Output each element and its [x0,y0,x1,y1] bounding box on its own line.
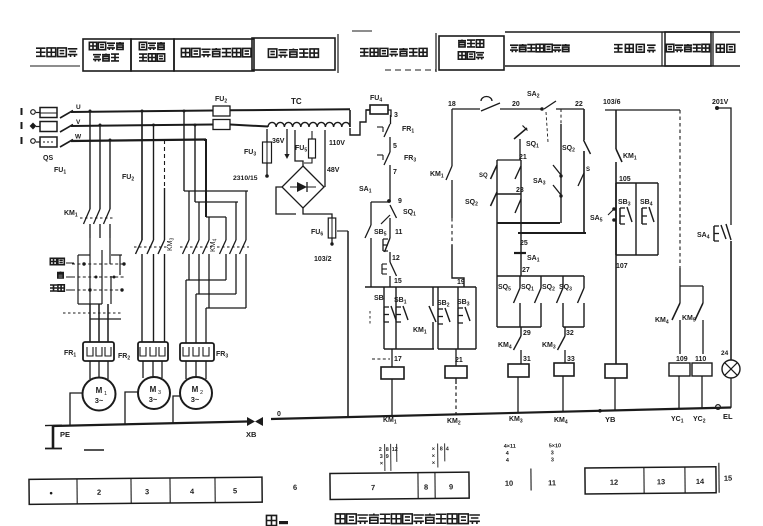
contact on wire 22 column lower [578,173,584,186]
wire M2 to ground bus [173,396,180,423]
lamp EL [722,360,740,378]
wire merge to coil KM2 [438,348,476,350]
svg-text:×: × [432,460,435,466]
svg-text:8: 8 [440,446,443,452]
wire drop W to KM1 [109,140,111,209]
svg-text:7: 7 [393,169,397,176]
svg-text:25: 25 [520,240,528,247]
svg-text:5: 5 [393,143,397,150]
contact FR3 (NC, overload) [377,154,383,156]
contactor KM2 contacts (coolant pump) [136,240,143,254]
svg-text:110V: 110V [329,140,345,147]
section strip group 3 (cols 12-14) [585,467,716,494]
selector SA1 branch [371,201,390,203]
svg-text:5×10: 5×10 [549,443,561,449]
svg-text:4×11: 4×11 [504,444,516,450]
rectifier bridge VC [282,166,324,208]
wire drop to KM1 aux [615,110,617,149]
svg-text:23: 23 [516,187,524,194]
transformer TC winding [268,122,350,127]
coil YB (brake electromagnet) [605,364,627,378]
coil KM4 [554,363,574,376]
tap 48V to rectifier (right) [324,130,326,187]
contact FR1 (NC, overload) [377,126,383,128]
svg-text:12: 12 [392,447,398,453]
pushbutton SB4 operator [641,208,643,224]
coil YC2 (clutch) [692,363,712,376]
coil KM3 [508,364,529,377]
wire drop V to KM1 [99,125,101,209]
coil KM1 [391,349,393,367]
wire drop W turns down to feed group [204,140,206,217]
contact KM5 aux (clutch YC2) [695,303,703,320]
wire 103 rail [605,109,680,111]
fuse FU5 [309,139,316,158]
svg-text:19: 19 [457,279,465,286]
thermal relay FR3 [180,343,214,361]
svg-text:3: 3 [551,450,554,456]
header box: 主轴电动机运行 (spindle motor run) [83,39,131,71]
svg-text:3~: 3~ [149,395,158,404]
svg-text:S: S [586,167,590,173]
svg-text:31: 31 [523,356,531,363]
svg-text:3~: 3~ [191,395,200,404]
strip annotation above col 8-9 [437,443,439,467]
terminal XB arrows [247,417,255,426]
drum reversing switch frame [78,254,90,256]
contactor KM4 contacts (feed fwd) [188,191,190,240]
svg-text:14: 14 [696,477,705,486]
limit switch SQ1 lower [519,276,521,288]
mid mesh rail [520,160,522,252]
wire 18 vertical with KM1 aux [451,109,453,166]
contactor KM1 main contacts [84,209,91,224]
limit switch SQ2 lower [540,276,542,288]
header box: 进给电动机运行 (feed motor run) [174,39,254,71]
svg-text:1: 1 [104,391,107,397]
svg-text:11: 11 [548,478,556,487]
fuse FU6 [328,218,336,238]
branch SA1 left vertical with SB5 [370,202,372,225]
terminal circle EL [716,405,721,410]
switch SA4 (lamp) [713,226,715,241]
header box: 电磁离合器 (electromagnetic clutch) [665,32,711,66]
wire TC secondary to FU4 [350,110,370,135]
svg-text:17: 17 [394,356,402,363]
wire 103 to clutch branch [679,110,681,268]
svg-text:10: 10 [505,479,513,488]
drum switch dashed row 正转 [72,289,126,291]
pushbutton SB2 (rapid) [437,287,439,309]
contact FR2 (NC) on wire 18 [481,97,492,102]
label 反转 (reverse) [50,258,56,264]
wire drop U to feed group [183,111,185,191]
merge rail phase 3 [208,254,210,308]
caption text (clipped) [335,514,345,524]
header label: 主轴电动机控制 (spindle motor control) [360,48,369,57]
svg-text:201V: 201V [712,99,729,106]
selector SA3 column [560,109,562,124]
svg-text:33: 33 [567,356,575,363]
svg-text:2: 2 [97,488,101,497]
thermal relay FR2 [138,342,168,361]
pushbutton SB3 operator [619,208,621,224]
drum switch dashed row 反转 [72,263,126,265]
svg-text:7: 7 [371,483,375,492]
wire drop V to KM2 group [153,125,155,240]
wire 103 vertical to 0 bus [337,230,348,232]
drum switch contact dots [82,262,85,265]
wire node15 rail [365,286,476,288]
svg-text:109: 109 [676,356,688,363]
stray mark [84,449,104,451]
svg-text:12: 12 [392,255,400,262]
switch QS blade V [60,125,73,133]
svg-text:32: 32 [566,330,574,337]
lighting feed wire [715,106,719,110]
pushbutton SB5 (stop, station 2) [383,287,385,307]
wire drop V to feed group [194,125,196,202]
wires to FR3 [185,280,187,343]
contact SQ1 upper [514,128,527,139]
contact on mid rail upper [515,166,521,179]
contact SQ1 [390,205,397,218]
fuse FU4 [370,105,388,114]
fuse FU3 [263,142,272,163]
wire rectifier DC left [276,187,296,214]
wire drop U to KM1 [89,111,91,209]
contact SQ4 on left rail lower [491,192,498,206]
svg-text:6: 6 [293,483,297,492]
header label: 主轴制动 (spindle braking) [614,44,623,53]
wire FU3 down [266,163,268,176]
contact SQ3 on left rail upper [491,165,498,179]
wire drop U to KM2 group [141,111,143,240]
limit switch SQ3 lower [562,276,564,288]
supply terminal dashes L1 L2 L3 [21,108,23,115]
svg-text:15: 15 [724,474,732,483]
header label: 隔离开关 (isolating switch) [36,48,45,57]
wire node 29 down [520,327,522,336]
section strip group 2 (cols 7-9) [330,472,469,499]
pushbutton SB6 (NC) [382,239,384,251]
svg-text:29: 29 [523,330,531,337]
caption 图: figure number [266,515,276,525]
svg-text:3: 3 [380,454,383,460]
contact KM3 aux interlock [558,336,566,350]
header band outline (right section) [505,31,740,33]
strip tick between 10 and 11 [530,469,532,491]
header box: 快速移动控制 (rapid traverse control) [439,36,504,70]
svg-text:24: 24 [721,350,729,357]
label 正转 (forward) [50,285,57,292]
svg-text:110: 110 [695,356,706,363]
svg-text:M: M [96,386,103,395]
svg-text:TC: TC [291,97,302,106]
wires FR1 to motor M1 [89,361,91,379]
header separator line [435,33,437,72]
fuse FU1 phase U [40,108,57,118]
svg-text:36V: 36V [272,138,285,145]
coil KM2 [445,366,467,378]
wire 18 rail [452,108,480,110]
mesh rail 27 [497,275,584,277]
merge rail to node 32 [563,326,584,328]
bus V (phase V horizontal) [71,125,213,127]
node 23 rail [497,193,521,195]
node 21 rail [497,159,521,161]
svg-text:107: 107 [616,263,628,270]
svg-text:3~: 3~ [95,396,104,405]
selector SA1 blade [381,215,390,224]
merge rail to node 29 [497,326,541,328]
strip annotation above col 7 [384,444,386,471]
svg-text:27: 27 [522,267,530,274]
tap to rectifier (left) [295,130,303,166]
svg-text:9: 9 [449,482,453,491]
svg-text:103/6: 103/6 [603,99,621,106]
svg-text:U: U [76,104,81,111]
section strip group 1 (cols 1-5) [29,441,733,505]
fuse FU1 phase W [40,137,57,147]
svg-text:8: 8 [424,483,428,492]
left mesh rail extension [496,276,498,327]
mesh rail upper [497,222,560,224]
ground bus PE [53,422,247,427]
svg-text:12: 12 [610,478,618,487]
wire SA1 to node 27 rail [520,253,522,276]
selector SA5 contacts [612,207,616,211]
svg-text:2: 2 [200,390,203,396]
tap to FU3 (lighting) [266,129,268,142]
wire lamp to 0 bus [730,378,732,408]
left mesh rail [496,160,498,276]
header separator line [661,32,663,66]
buttons SB3 SB4 parallel box [616,182,658,184]
svg-text:3: 3 [551,457,554,463]
svg-text:21: 21 [519,154,527,161]
svg-text:EL: EL [723,412,733,421]
drum switch dashed row 停 [72,276,126,278]
wires FR3 to motor M2 [185,361,187,379]
supply terminal circles [31,110,36,115]
fuse FU2 on V line to TC [213,120,230,130]
wire buttons merge to node 17 [384,348,434,350]
svg-text:9: 9 [398,198,402,205]
contact on mid rail lower [515,199,521,213]
contact KM4 aux (clutch YC1) [672,303,680,320]
right rail of rapid button group [475,287,477,349]
motor M2 (feed motor) [180,377,212,409]
wire to coil YB [615,255,617,364]
svg-text:XB: XB [246,430,257,439]
svg-text:M: M [150,385,157,394]
header box: 照明 (lighting) [712,32,714,66]
mesh rail lower [518,232,586,234]
thermal relay FR1 [83,342,114,361]
contact KM4 aux interlock [514,336,522,350]
label 停 (stop) [57,272,64,279]
svg-text:0: 0 [277,411,281,418]
clutch branch split [680,285,703,287]
fuse FU2 on U line to TC [213,106,230,116]
wire drop W to KM2 group [164,140,166,188]
svg-text:×: × [432,446,435,452]
control chain wire [390,115,392,124]
tap 36V with arrow [286,129,288,155]
merge rail phase 1 [188,254,190,280]
svg-text:QS: QS [43,155,53,162]
svg-text:SB: SB [374,295,384,302]
svg-text:9: 9 [386,454,389,460]
merge rail phase 2 [198,254,200,294]
svg-text:48V: 48V [327,167,340,174]
header box: 冷却泵电动机 (coolant pump motor) [131,39,174,71]
svg-text:YB: YB [605,415,616,424]
ground symbol PE [45,424,62,426]
bus W (phase W horizontal) [71,140,206,142]
crossover rail 3 [206,216,226,218]
svg-text:8: 8 [386,447,389,453]
wires FR2 to motor M3 [142,361,144,378]
svg-text:20: 20 [512,101,520,108]
switch QS blade U [60,111,73,119]
wire below FU6 [331,238,333,244]
svg-text:M: M [192,385,199,394]
fuse FU1 phase V [40,122,57,132]
svg-text:PE: PE [60,430,70,439]
svg-text:3: 3 [145,487,149,496]
drum switch lower link [90,318,121,320]
contact SQ (chain) with operator bracket [381,264,383,274]
svg-text:×: × [432,453,435,459]
header separator line [337,34,339,73]
wires drum switch to FR1 [89,304,91,342]
svg-text:105: 105 [619,176,631,183]
bus U (phase U horizontal) [71,111,213,113]
contactor KM5 contacts (feed rev) [225,217,227,240]
switch QS blade W [60,140,73,148]
svg-text:13: 13 [657,477,665,486]
header box: 控制变压器 (control transformer) [252,38,335,70]
svg-text:W: W [75,134,82,141]
wire node 32 down [564,327,566,336]
svg-text:103/2: 103/2 [314,256,332,263]
crossover rail 2 [195,201,238,203]
coil YC1 (clutch) [669,363,690,376]
svg-text:3: 3 [158,390,161,396]
wire M3 to ground bus [125,392,138,424]
contact KM1 auxiliary (hold) [432,287,434,306]
pushbutton SB3 (rapid) [457,287,459,308]
motor M1 (spindle motor) [83,378,116,411]
wire rectifier DC bottom to FU6 [303,208,332,218]
svg-text:2310/15: 2310/15 [233,175,258,182]
label col 15 [718,463,720,493]
svg-text:11: 11 [395,229,403,236]
svg-text:×: × [380,461,383,467]
crossover rail 1 [184,190,248,192]
svg-text:3: 3 [394,112,398,119]
wire FU4 to node 3 [388,110,391,117]
limit switch SQ4 lower [583,276,585,288]
wire M1 to ground bus [70,393,83,426]
svg-text:5: 5 [233,486,237,495]
bus 0 (control common) [271,408,731,420]
contact KM1 aux (brake) [616,149,622,162]
transformer TC primary top line [349,110,351,127]
svg-text:18: 18 [448,101,456,108]
selector SA1 contact (round table) [514,252,526,254]
contact SQ2b on wire 22 column [583,109,585,140]
svg-text:15: 15 [394,278,402,285]
pushbutton SB1 (start) [395,287,397,307]
svg-text:22: 22 [575,101,583,108]
motor M3 (coolant pump motor) [138,377,170,409]
header label: 工作台运动控制 (worktable motion control) [510,45,518,52]
svg-text:2: 2 [379,447,382,453]
svg-text:SQ: SQ [479,173,488,179]
